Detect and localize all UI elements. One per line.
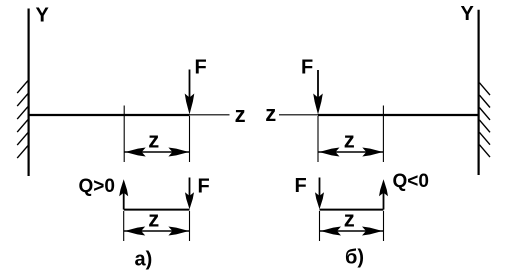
extension line free-body a1 xyxy=(123,211,125,241)
svg-text:z: z xyxy=(148,206,159,231)
Q arrow up b head xyxy=(379,179,388,196)
free body line a xyxy=(124,209,190,211)
dim arrow a left xyxy=(125,148,146,157)
Q arrow up b shaft xyxy=(383,191,385,210)
wall right xyxy=(478,10,480,175)
force F free-body a shaft xyxy=(189,178,191,197)
dim arrow b left xyxy=(319,148,340,157)
extension line free-body a2 xyxy=(189,211,191,241)
svg-text:Y: Y xyxy=(461,3,475,25)
extension line b1 xyxy=(382,106,384,163)
force F head a xyxy=(185,94,195,115)
force F shaft b xyxy=(317,70,319,101)
dim arrow free-body a right xyxy=(168,227,189,236)
force F free-body b head xyxy=(315,192,324,209)
svg-text:F: F xyxy=(301,57,313,79)
dim arrow free-body b right xyxy=(362,227,383,236)
hatching left wall xyxy=(17,81,28,158)
dim arrow a right xyxy=(168,148,189,157)
Q arrow up a shaft xyxy=(123,191,125,210)
wall left xyxy=(28,9,30,177)
svg-text:z: z xyxy=(344,128,355,153)
dimension line a xyxy=(124,151,189,153)
dimension line b xyxy=(318,151,383,153)
force F head b xyxy=(313,94,323,115)
dim arrow free-body a left xyxy=(125,227,146,236)
svg-text:б): б) xyxy=(345,247,364,269)
svg-text:а): а) xyxy=(135,249,153,271)
beam a xyxy=(29,114,190,116)
beam b xyxy=(318,114,479,116)
hatching right wall xyxy=(479,83,490,157)
extension line a2 xyxy=(189,116,191,162)
extension line a1 xyxy=(123,106,125,163)
dimension line free-body b xyxy=(320,230,384,232)
extension line free-body b2 xyxy=(383,211,385,241)
force F free-body b shaft xyxy=(319,178,321,197)
extension line free-body b1 xyxy=(319,211,321,241)
axis line a xyxy=(190,114,230,116)
svg-text:Q<0: Q<0 xyxy=(393,171,429,192)
dimension line free-body a xyxy=(124,230,190,232)
svg-text:z: z xyxy=(235,102,246,127)
svg-text:Q>0: Q>0 xyxy=(79,176,115,197)
free body line b xyxy=(320,209,384,211)
svg-text:z: z xyxy=(148,128,159,153)
force F shaft a xyxy=(189,70,191,102)
force F free-body a head xyxy=(185,192,194,209)
dim arrow free-body b left xyxy=(321,227,342,236)
svg-text:Y: Y xyxy=(36,5,50,27)
svg-text:z: z xyxy=(265,101,276,126)
svg-text:z: z xyxy=(344,206,355,231)
svg-text:F: F xyxy=(295,175,307,197)
Q arrow up a head xyxy=(119,179,128,196)
svg-text:F: F xyxy=(195,57,207,79)
axis line b xyxy=(279,114,318,116)
svg-text:F: F xyxy=(198,176,210,198)
extension line b2 xyxy=(317,116,319,162)
dim arrow b right xyxy=(362,148,383,157)
